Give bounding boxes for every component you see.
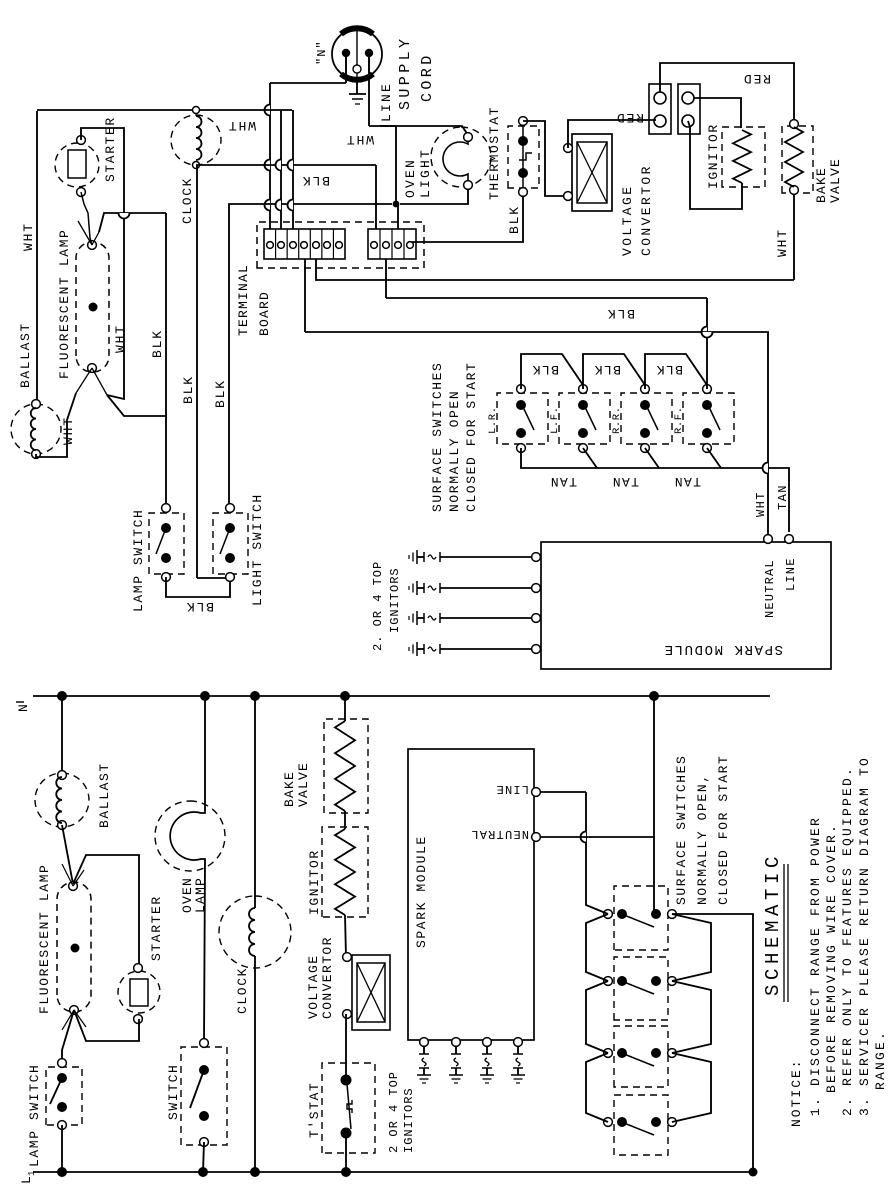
label 2 or 4 top ignitors (schematic) xyxy=(387,1071,416,1153)
label wht plug wire xyxy=(345,132,374,147)
svg-text:BEFORE REMOVING WIRE COVER.: BEFORE REMOVING WIRE COVER. xyxy=(824,823,839,1093)
svg-text:CLOSED FOR START: CLOSED FOR START xyxy=(464,362,479,512)
svg-text:VALVE: VALVE xyxy=(828,158,843,203)
svg-text:TAN: TAN xyxy=(549,474,577,489)
label surface switches (schematic) xyxy=(674,755,731,905)
spark module (schematic) xyxy=(408,749,534,1040)
svg-text:NEUTRAL: NEUTRAL xyxy=(470,827,529,841)
wire lamp to lamp switch xyxy=(62,1010,74,1063)
wire tb2 cell2 BLK xyxy=(386,259,707,321)
svg-text:OVEN: OVEN xyxy=(403,158,418,198)
wire t'stat to L1 xyxy=(341,1133,351,1177)
connector plug B xyxy=(678,84,700,134)
svg-text:NEUTRAL: NEUTRAL xyxy=(763,559,777,618)
wire spark module LINE to surface switches xyxy=(541,792,608,1122)
wire N to oven lamp xyxy=(200,691,210,811)
node line junction xyxy=(393,201,400,208)
surface switch TAN chain xyxy=(521,448,789,532)
surface switch BLK chain xyxy=(521,354,707,389)
svg-text:SURFACE SWITCHES: SURFACE SWITCHES xyxy=(674,755,689,905)
svg-text:SPARK MODULE: SPARK MODULE xyxy=(663,641,783,657)
spark module terminal LINE xyxy=(495,782,540,796)
svg-text:VOLTAGE: VOLTAGE xyxy=(306,955,321,1019)
label wht ballast xyxy=(61,416,76,445)
svg-text:1: 1 xyxy=(27,1171,37,1176)
surface switch bottom chain (schematic) xyxy=(672,914,711,1122)
svg-text:T'STAT: T'STAT xyxy=(307,1082,322,1138)
svg-text:IGNITOR: IGNITOR xyxy=(307,849,322,915)
title SCHEMATIC xyxy=(762,852,788,1002)
svg-text:LAMP SWITCH: LAMP SWITCH xyxy=(131,509,146,612)
light switch (wiring) xyxy=(213,493,265,606)
svg-text:LIGHT: LIGHT xyxy=(418,148,433,198)
svg-text:TAN: TAN xyxy=(611,474,639,489)
spark module top ignitor outputs xyxy=(409,550,540,656)
svg-text:2. OR 4 TOP: 2. OR 4 TOP xyxy=(371,561,385,651)
wire tb cell3 xyxy=(288,110,294,229)
label terminal board xyxy=(236,264,272,336)
svg-text:IGNITOR: IGNITOR xyxy=(706,123,721,189)
wire oven light return xyxy=(400,189,468,204)
svg-text:2. REFER ONLY TO FEATURES EQU: 2. REFER ONLY TO FEATURES EQUIPPED. xyxy=(840,766,855,1116)
label 2 or 4 top ignitors (wiring) xyxy=(371,561,402,651)
wire ballast to lamp low xyxy=(36,393,76,457)
wire connector A to bake valve RED xyxy=(660,63,794,120)
svg-text:WHT: WHT xyxy=(227,118,256,133)
svg-text:TAN: TAN xyxy=(673,474,701,489)
svg-text:R.R.: R.R. xyxy=(611,406,623,434)
notice line 4 xyxy=(857,756,872,1116)
svg-text:BLK: BLK xyxy=(606,306,635,321)
voltage convertor (wiring) xyxy=(564,134,654,256)
wire lamp top to BLK line xyxy=(99,213,166,232)
wire line to oven light xyxy=(380,126,468,135)
thermostat (wiring) xyxy=(487,106,539,200)
svg-text:L.F.: L.F. xyxy=(549,406,561,434)
wire ignitor return xyxy=(688,121,742,209)
wire tb cell2 xyxy=(276,110,282,229)
label blk light switch xyxy=(213,379,228,408)
oven switch SW2 (schematic) xyxy=(166,1039,227,1147)
wire oven lamp to switch xyxy=(204,860,205,1043)
wire bake valve to ignitor xyxy=(344,811,346,829)
wire switch to L1 xyxy=(198,1142,208,1177)
svg-text:CLOCK: CLOCK xyxy=(180,177,195,224)
svg-text:LINE: LINE xyxy=(379,82,394,122)
wire plug to terminal board WHT xyxy=(265,55,347,229)
wire tb2 cell4 to thermostat xyxy=(412,196,523,242)
svg-text:LINE: LINE xyxy=(495,782,529,796)
wire spark module NEUTRAL / N to switch contact xyxy=(541,691,659,914)
svg-text:TAN: TAN xyxy=(776,484,790,510)
svg-text:IGNITORS: IGNITORS xyxy=(402,1087,416,1153)
svg-text:FLUORESCENT LAMP: FLUORESCENT LAMP xyxy=(57,229,72,379)
wire WHT neutral line xyxy=(305,332,768,536)
lamp switch (wiring) xyxy=(131,504,184,612)
svg-text:CONVERTOR: CONVERTOR xyxy=(320,936,335,1019)
wire WHT rail top xyxy=(21,111,37,401)
svg-text:CLOSED FOR START: CLOSED FOR START xyxy=(716,755,731,905)
wire tb cell4 to WHT line xyxy=(304,259,306,332)
lamp switch SW1 (schematic) xyxy=(27,1059,82,1167)
svg-text:STARTER: STARTER xyxy=(103,116,118,182)
wire lamp switch to light switch xyxy=(166,577,230,614)
svg-text:BLK: BLK xyxy=(185,599,214,614)
svg-text:R.F.: R.F. xyxy=(673,406,685,434)
svg-text:VALVE: VALVE xyxy=(296,762,311,807)
svg-text:STARTER: STARTER xyxy=(149,895,164,961)
wire clock to L1 xyxy=(250,956,260,1177)
wire ignitor to convertor xyxy=(345,915,346,957)
svg-text:SCHEMATIC: SCHEMATIC xyxy=(762,852,784,996)
svg-text:RANGE.: RANGE. xyxy=(873,1030,888,1090)
notice line 5 xyxy=(873,1030,888,1090)
wire lamp switch to L1 xyxy=(57,1125,67,1177)
ignitor (wiring) xyxy=(706,123,765,189)
label supply cord xyxy=(397,36,436,110)
supply cord ground xyxy=(349,78,366,104)
svg-text:FLUORESCENT LAMP: FLUORESCENT LAMP xyxy=(37,864,52,1014)
wire clock to light switch xyxy=(181,165,226,578)
fluorescent lamp (wiring) xyxy=(57,221,128,395)
svg-text:WHT: WHT xyxy=(61,416,76,445)
svg-text:BLK: BLK xyxy=(593,362,621,377)
svg-text:WHT: WHT xyxy=(21,222,36,251)
notice line 2 xyxy=(824,823,839,1093)
bake valve (wiring) xyxy=(782,120,843,203)
svg-text:BALLAST: BALLAST xyxy=(18,322,33,388)
svg-text:SPARK MODULE: SPARK MODULE xyxy=(414,835,429,948)
oven lamp (schematic) xyxy=(155,801,225,913)
svg-text:N: N xyxy=(16,704,31,712)
spark module (wiring) xyxy=(541,542,831,669)
svg-text:WHT: WHT xyxy=(754,491,768,517)
spark module terminal NEUTRAL xyxy=(470,827,540,841)
svg-text:BLK: BLK xyxy=(213,379,228,408)
wire line bus to light switch xyxy=(229,204,392,508)
svg-text:SURFACE SWITCHES: SURFACE SWITCHES xyxy=(430,362,445,512)
notice heading xyxy=(789,1058,804,1127)
wire BLK to lamp switch xyxy=(150,213,166,508)
svg-text:WHT: WHT xyxy=(113,324,128,353)
svg-text:TERMINAL: TERMINAL xyxy=(236,264,251,336)
ignitor (schematic) xyxy=(307,827,368,917)
label surface switches (wiring) xyxy=(430,362,479,512)
wire WHT to bake valve xyxy=(775,193,794,280)
wire starter low to lamp xyxy=(81,192,92,245)
power rail L1 xyxy=(19,1171,755,1184)
svg-text:L.R.: L.R. xyxy=(487,406,499,434)
connector plug A xyxy=(649,84,671,134)
wire convertor to connector xyxy=(568,110,656,148)
wire starter top loop xyxy=(81,128,124,399)
svg-text:2 OR 4 TOP: 2 OR 4 TOP xyxy=(387,1071,401,1153)
svg-text:IGNITORS: IGNITORS xyxy=(388,567,402,633)
wire surface switch to L1 xyxy=(672,914,758,1177)
ballast (wiring) xyxy=(11,322,61,458)
svg-text:BLK: BLK xyxy=(181,375,196,404)
surface switches (schematic) xyxy=(604,886,677,1155)
wire N to ballast B1 xyxy=(57,691,67,775)
supply cord plug xyxy=(315,28,382,80)
svg-text:SUPPLY: SUPPLY xyxy=(397,36,414,110)
spark module ignitor outputs with spark gaps xyxy=(417,1038,525,1083)
svg-text:RED: RED xyxy=(615,110,644,125)
notice line 1 xyxy=(808,816,823,1116)
svg-text:BLK: BLK xyxy=(150,329,165,358)
wire N to clock xyxy=(250,691,260,908)
wire tb cell5 bake valve WHT xyxy=(316,259,794,280)
terminal board xyxy=(257,222,424,268)
svg-text:BLK: BLK xyxy=(655,362,683,377)
wire BLK bus to switch 4 xyxy=(702,298,708,389)
wire lamp to starter loop xyxy=(73,855,139,968)
svg-text:NORMALLY OPEN: NORMALLY OPEN xyxy=(447,390,462,512)
svg-text:LINE: LINE xyxy=(784,557,798,591)
voltage convertor (schematic) xyxy=(306,936,390,1030)
svg-text:BOARD: BOARD xyxy=(257,291,272,336)
oven thermostat T'STAT (schematic) xyxy=(307,1063,375,1153)
module terminals NEUTRAL LINE xyxy=(763,535,798,618)
wire tb2 cell3 LINE stub xyxy=(397,204,399,229)
svg-text:BAKE: BAKE xyxy=(282,771,297,807)
svg-text:1. DISCONNECT RANGE FROM POWE: 1. DISCONNECT RANGE FROM POWER xyxy=(808,816,823,1116)
svg-text:CONVERTOR: CONVERTOR xyxy=(639,164,654,256)
wire clock down xyxy=(196,165,376,229)
svg-text:NOTICE:: NOTICE: xyxy=(789,1058,804,1127)
starter (wiring) xyxy=(55,116,118,196)
svg-text:RED: RED xyxy=(742,71,771,86)
clock (schematic) xyxy=(219,896,291,1014)
fluorescent lamp FL1 (schematic) xyxy=(37,864,91,1030)
svg-text:BLK: BLK xyxy=(301,173,330,188)
svg-text:LIGHT SWITCH: LIGHT SWITCH xyxy=(250,493,265,606)
svg-text:WHT: WHT xyxy=(345,132,374,147)
svg-text:SWITCH: SWITCH xyxy=(166,1064,181,1120)
svg-text:LAMP SWITCH: LAMP SWITCH xyxy=(27,1064,42,1167)
svg-text:L: L xyxy=(19,1176,34,1184)
svg-text:BLK: BLK xyxy=(507,205,522,234)
svg-text:BLK: BLK xyxy=(531,362,559,377)
wire convertor to t'stat xyxy=(345,1014,347,1080)
notice line 3 xyxy=(840,766,855,1116)
oven light xyxy=(403,127,491,198)
wire lamp to BLK drop xyxy=(107,395,166,416)
starter S1 (schematic) xyxy=(118,895,164,1023)
wire connector B to ignitor xyxy=(694,98,741,128)
svg-text:CORD: CORD xyxy=(419,52,436,102)
svg-text:NORMALLY OPEN,: NORMALLY OPEN, xyxy=(695,773,710,905)
clock (wiring) xyxy=(171,115,221,224)
svg-text:THERMOSTAT: THERMOSTAT xyxy=(487,106,502,200)
wire plug LINE xyxy=(369,55,396,204)
surface switches (wiring) xyxy=(487,385,734,453)
hop wht over tan xyxy=(763,463,769,474)
svg-text:BALLAST: BALLAST xyxy=(97,762,112,828)
labels WHT TAN at module xyxy=(754,484,790,517)
power rail N xyxy=(16,696,770,712)
svg-text:3. SERVICER PLEASE RETURN DIA: 3. SERVICER PLEASE RETURN DIAGRAM TO xyxy=(857,756,872,1116)
wire ballast to lamp xyxy=(62,825,73,884)
bake valve (schematic) xyxy=(282,719,368,813)
wire N to bake valve xyxy=(340,691,350,721)
wire starter to lamp low end xyxy=(74,1010,139,1041)
wire thermostat to convertor xyxy=(523,121,566,196)
svg-text:CLOCK: CLOCK xyxy=(235,967,250,1014)
svg-text:WHT: WHT xyxy=(775,228,790,257)
wire rail to clock xyxy=(37,107,292,134)
ballast B1 (schematic) xyxy=(35,762,112,829)
svg-text:VOLTAGE: VOLTAGE xyxy=(620,185,635,256)
svg-text:BAKE: BAKE xyxy=(814,167,829,203)
svg-text:"N": "N" xyxy=(315,40,329,65)
